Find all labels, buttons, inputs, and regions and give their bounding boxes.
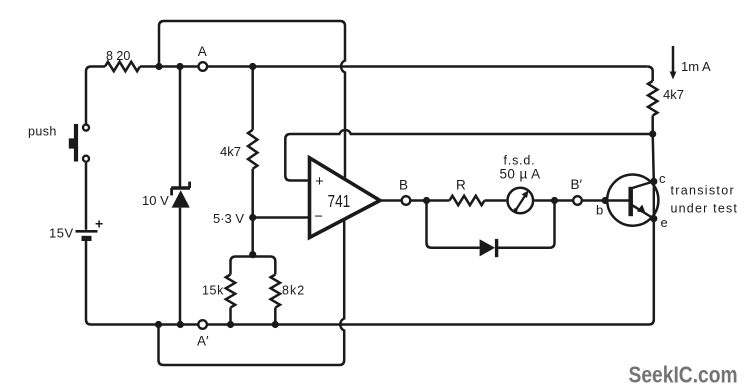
svg-text:5·3 V: 5·3 V <box>213 211 244 226</box>
wire: top rail corner down to 4k7 (collector load) <box>647 67 653 82</box>
wire: push button to battery <box>85 163 88 230</box>
wire: top-left corner and left vertical to push button <box>86 67 105 124</box>
resistor 820 <box>105 62 140 71</box>
svg-text:15V: 15V <box>49 226 74 241</box>
resistor R <box>450 196 485 205</box>
svg-text:A′: A′ <box>197 334 209 349</box>
svg-text:under test: under test <box>671 202 739 216</box>
junction: zener tap <box>176 63 183 70</box>
wire: diode branch right rise <box>496 201 554 248</box>
wire: battery to bottom rail <box>86 241 105 325</box>
op-amp U1 741 <box>310 158 381 238</box>
svg-text:8k2: 8k2 <box>282 284 305 298</box>
wire: R to meter <box>485 199 507 202</box>
wire: bottom rail left of A' <box>105 323 198 326</box>
wire: feedback junction to collector <box>653 134 654 181</box>
transistor base bar <box>628 187 633 216</box>
svg-text:c: c <box>659 171 666 186</box>
svg-text:1m A: 1m A <box>681 59 711 74</box>
junction: zener bottom <box>177 321 184 328</box>
wire: inverting input from 5.3V node <box>253 216 310 219</box>
node B' <box>573 196 582 205</box>
svg-text:8 20: 8 20 <box>106 49 130 63</box>
wire: node to zener diode <box>179 67 182 187</box>
wire: top rail 820 to node A <box>140 65 198 68</box>
svg-text:741: 741 <box>328 192 351 211</box>
junction: divider resistors top <box>249 251 256 258</box>
meter M1 50uA <box>508 188 534 214</box>
svg-text:push: push <box>28 125 57 139</box>
node 5.3V junction <box>249 214 256 221</box>
junction: 8k2 bottom <box>272 321 279 328</box>
svg-text:b: b <box>596 203 603 218</box>
svg-text:transistor: transistor <box>671 184 735 198</box>
junction: 15k bottom <box>227 321 234 328</box>
node B <box>402 196 411 205</box>
junction: base at body <box>602 197 609 204</box>
junction: diode branch left <box>423 197 430 204</box>
junction: collector node c <box>650 178 657 185</box>
wire: 4k7 to 5.3V node <box>251 169 254 218</box>
wire: positive supply loop (741 V+) with hop over top rail <box>159 21 345 178</box>
svg-text:SeekIC.com: SeekIC.com <box>629 362 738 388</box>
junction: diode branch right <box>551 197 558 204</box>
node A <box>199 62 208 71</box>
svg-text:+: + <box>315 174 323 190</box>
svg-text:e: e <box>661 215 668 230</box>
wire: emitter down to bottom rail <box>207 219 653 325</box>
junction: feedback tap <box>649 130 656 137</box>
svg-text:4k7: 4k7 <box>663 87 684 102</box>
svg-text:50 µ A: 50 µ A <box>500 167 541 182</box>
diode D2 <box>480 239 495 256</box>
wire: negative supply loop (741 V−) with hop over bottom rail <box>159 220 345 366</box>
svg-text:−: − <box>315 209 323 225</box>
wire: 5.3V node to divider resistors <box>251 218 254 255</box>
wire: 15k to bottom rail <box>229 308 232 325</box>
svg-text:B: B <box>399 178 408 193</box>
svg-text:B′: B′ <box>571 177 583 192</box>
junction: emitter node e <box>650 215 657 222</box>
battery B1 15V <box>76 230 98 233</box>
wire: 4k7 to feedback junction <box>651 116 654 135</box>
zener diode D1 10V <box>171 186 190 189</box>
svg-text:A: A <box>198 44 207 59</box>
svg-text:f.s.d.: f.s.d. <box>504 154 536 168</box>
junction: 4k7 tap <box>249 63 256 70</box>
junction: V- loop at bottom rail <box>155 321 162 328</box>
wire: op-amp output to node B <box>380 199 401 202</box>
svg-text:R: R <box>456 178 466 193</box>
wire: split to 15k and 8k2 <box>231 257 276 275</box>
wire: base lead <box>605 199 628 202</box>
push button PB1 (normally-open contacts) <box>83 125 89 131</box>
wire: non-inverting input feedback with hop over supply line <box>285 130 652 181</box>
junction: top loop tap <box>155 63 162 70</box>
wire: node B' to transistor base <box>582 199 605 202</box>
resistor 15k <box>226 275 235 308</box>
svg-text:10 V: 10 V <box>142 193 169 208</box>
wire: collector-emitter vertical (chord through body) <box>653 181 655 218</box>
resistor 4k7 (collector load) <box>648 81 657 116</box>
annotation arrow 1mA <box>672 46 675 74</box>
svg-text:+: + <box>95 216 103 232</box>
wire: top rail to 4k7 <box>251 67 254 130</box>
wire: node B to resistor R <box>411 199 450 202</box>
wire: 8k2 to bottom rail <box>274 308 277 325</box>
svg-text:15k: 15k <box>202 284 224 298</box>
wire: diode branch left drop <box>427 201 480 248</box>
resistor 8k2 <box>271 275 280 308</box>
node A' <box>198 320 207 329</box>
resistor 4k7 (divider top) <box>248 130 257 169</box>
wire: meter to node B' <box>534 199 573 202</box>
wire: zener to bottom rail <box>179 208 182 325</box>
svg-text:4k7: 4k7 <box>220 144 241 159</box>
transistor collector lead <box>631 181 654 188</box>
transistor emitter lead with arrow <box>631 204 654 218</box>
transistor Q1 under test (body) <box>607 175 658 226</box>
wire: top rail node A to right corner <box>208 65 648 68</box>
